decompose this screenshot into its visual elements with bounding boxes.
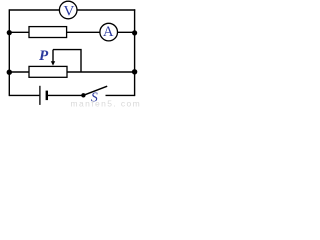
- svg-text:manfen5. com: manfen5. com: [71, 98, 142, 107]
- rheostat slider arrow: [51, 50, 55, 66]
- wire switch to right bus: [106, 94, 135, 96]
- wire row2 left: [9, 31, 29, 33]
- wire bottom-left: [9, 94, 39, 96]
- ammeter A: [100, 23, 118, 41]
- wire resistor to ammeter: [67, 31, 100, 33]
- node row2-left junction: [7, 30, 12, 35]
- wire top-right segment: [77, 9, 135, 11]
- wire rheostat wiper bracket: [53, 50, 81, 72]
- node row2-right junction: [132, 30, 137, 35]
- svg-text:P: P: [39, 48, 49, 64]
- node row3-left junction: [7, 70, 12, 75]
- svg-text:V: V: [63, 3, 74, 19]
- wire ammeter to right bus: [118, 31, 135, 33]
- switch lever: [83, 86, 107, 95]
- resistor R: [29, 27, 67, 38]
- rheostat body P: [29, 66, 67, 77]
- wire row3 right: [67, 71, 135, 73]
- wire left bus: [8, 9, 10, 96]
- voltmeter V: [59, 1, 77, 19]
- battery short plate: [46, 91, 48, 101]
- wire top-left segment: [9, 9, 59, 11]
- wire battery to switch: [48, 94, 82, 96]
- battery long plate: [39, 86, 41, 105]
- svg-text:A: A: [103, 24, 114, 40]
- node row3-right junction: [132, 69, 137, 74]
- wire row3 left: [9, 71, 29, 73]
- switch pivot node: [81, 93, 85, 97]
- wire right bus: [134, 9, 136, 96]
